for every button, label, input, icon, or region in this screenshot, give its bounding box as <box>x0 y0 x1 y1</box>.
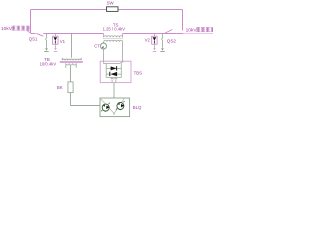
TBS bottom terminals <box>111 78 117 82</box>
earthing arrow of QS1 <box>45 48 48 50</box>
disconnector QS1 blade <box>31 33 44 36</box>
transformer TS primary winding <box>104 36 123 38</box>
disconnector QS2 blade <box>164 30 172 34</box>
converter BLQ box <box>100 98 130 117</box>
arrester V2 lower lead <box>154 44 156 48</box>
arrester V2 lead <box>154 34 156 37</box>
svg-text:QS1: QS1 <box>29 37 38 42</box>
wire: top bypass horizontal <box>31 9 183 11</box>
arrester V2 arrow to ground <box>153 48 155 50</box>
node: output label 10kV线路输出 <box>186 27 215 33</box>
svg-text:TBS: TBS <box>134 71 142 76</box>
ground tick of QS1 <box>44 51 48 53</box>
arrester V1 arrow inside <box>54 37 58 40</box>
BLQ diagonal right <box>113 98 124 114</box>
earthing arrow of QS2 <box>161 48 164 50</box>
ground tick of V2 <box>153 50 156 52</box>
ground tick of QS2 <box>160 51 164 53</box>
TBS thyristor bottom (left pointing) <box>110 72 117 76</box>
svg-text:V1: V1 <box>60 39 66 44</box>
earthing switch of QS1 <box>45 34 47 48</box>
thyristor bypass switch TBS box <box>100 61 131 82</box>
wire: CT to TBS <box>103 49 105 61</box>
svg-text:CT: CT <box>94 43 100 48</box>
wire: input stub diagonal into riser junction <box>27 30 31 33</box>
wire: BK to converter, down then right <box>71 93 101 106</box>
wire: TB secondary center tap down <box>70 65 72 82</box>
transformer TB secondary winding <box>66 63 76 68</box>
transformer TS primary stubs <box>104 34 123 38</box>
transformer TB primary winding <box>62 58 81 61</box>
BLQ converter icon right <box>116 101 125 110</box>
wire: left bypass riser <box>30 10 32 33</box>
arrester V2 arrow inside <box>153 37 157 40</box>
arrester V2 body <box>152 36 157 44</box>
transformer TS secondary winding <box>104 40 123 42</box>
wire: main horizontal bus <box>43 33 183 35</box>
arrester V1 arrow to ground <box>54 48 56 50</box>
svg-text:V2: V2 <box>145 38 151 43</box>
svg-text:10kV: 10kV <box>186 28 198 34</box>
TBS internal top link <box>104 61 124 63</box>
transformer TB primary tap <box>71 34 73 58</box>
current transformer CT lead <box>103 42 105 43</box>
svg-text:QS2: QS2 <box>167 39 177 44</box>
wire: TS secondary right to TBS <box>122 42 124 61</box>
transformer TB core <box>60 62 83 63</box>
arrester V1 body <box>53 36 58 44</box>
wire: right bypass riser <box>182 10 184 31</box>
svg-text:SW: SW <box>107 0 115 5</box>
svg-text:BLQ: BLQ <box>133 105 142 110</box>
bypass switch SW body <box>107 7 119 12</box>
wire: TBS to BLQ <box>113 83 115 98</box>
ground tick of V1 <box>54 50 57 52</box>
svg-text:10kV: 10kV <box>1 26 13 32</box>
transformer TS core <box>103 37 123 39</box>
arrester V1 lower lead <box>55 44 57 48</box>
earthing switch of QS2 <box>161 34 163 48</box>
breaker BK body <box>68 82 73 93</box>
TBS internal rails <box>106 64 121 78</box>
wire: main bus light segment to right edge <box>183 33 213 35</box>
TBS thyristor top (right pointing) <box>111 66 117 70</box>
BLQ diagonal left <box>100 98 115 114</box>
BLQ converter icon left <box>101 103 110 112</box>
node: input label 10kV线路输入 <box>1 26 30 32</box>
arrester V1 lead <box>55 34 57 37</box>
svg-text:1.25 / 0.4kV: 1.25 / 0.4kV <box>103 27 126 32</box>
svg-text:10/0.4kV: 10/0.4kV <box>40 61 57 66</box>
svg-text:BK: BK <box>57 85 63 90</box>
current transformer CT mark <box>102 46 104 49</box>
current transformer CT circle <box>101 43 107 49</box>
